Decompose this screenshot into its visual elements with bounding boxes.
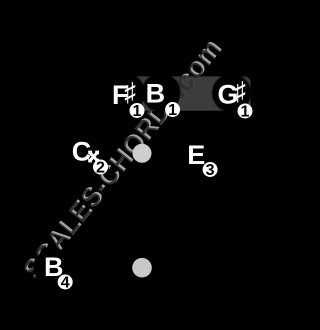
svg-text:1: 1 [133, 103, 142, 120]
note B (top) black circle [141, 72, 182, 113]
double sharp of Cx [88, 151, 99, 163]
note B (bottom) black circle [33, 247, 74, 288]
finger badge 1 on B [165, 102, 180, 117]
finger badge 1 on G# [238, 104, 253, 119]
finger badge 1 on F# [130, 103, 145, 118]
svg-text:1: 1 [168, 102, 177, 119]
svg-text:4: 4 [61, 275, 70, 292]
gray dot bottom [132, 258, 152, 278]
watermark shadow copy over bar [16, 35, 226, 287]
svg-text:3: 3 [206, 162, 215, 179]
svg-text:E: E [187, 140, 205, 170]
svg-text:2: 2 [96, 160, 105, 177]
watermark SCALES-CHORDS.com (light text) [16, 33, 228, 287]
gray dot middle [133, 144, 152, 163]
finger badge 4 on B bottom [58, 275, 73, 290]
note Cx black circle [69, 133, 110, 174]
finger badge 2 on Cx [93, 160, 108, 175]
note F# black circle [105, 72, 146, 113]
svg-text:1: 1 [241, 104, 250, 121]
finger badge 3 on E [203, 162, 218, 177]
note G# black circle [211, 73, 252, 114]
svg-text:B: B [146, 78, 166, 108]
note E black circle [178, 133, 219, 174]
barre bar fret 1 [122, 76, 251, 110]
svg-text:♯: ♯ [234, 77, 245, 105]
